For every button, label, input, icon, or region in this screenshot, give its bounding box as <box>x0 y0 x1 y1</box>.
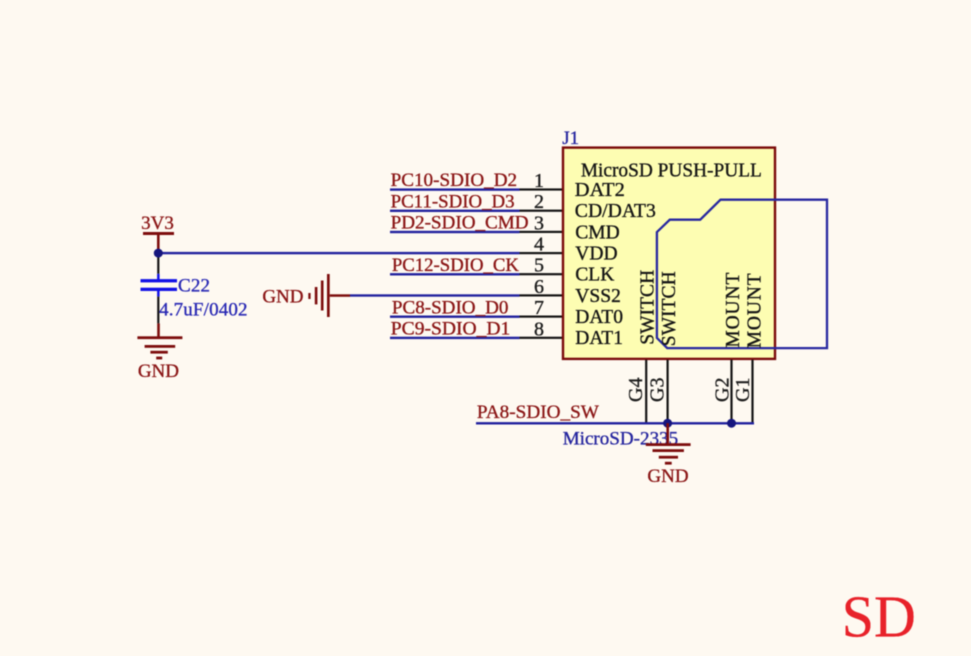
svg-text:3: 3 <box>534 212 544 234</box>
pin 5 stub <box>520 273 564 275</box>
svg-text:VDD: VDD <box>575 243 617 264</box>
svg-text:GND: GND <box>138 361 179 382</box>
connector J1 body <box>563 148 775 359</box>
svg-text:CMD: CMD <box>575 222 619 243</box>
svg-text:G1: G1 <box>732 378 754 402</box>
svg-text:CLK: CLK <box>575 265 614 286</box>
svg-text:PC8-SDIO_D0: PC8-SDIO_D0 <box>392 297 509 318</box>
svg-text:GND: GND <box>647 466 688 487</box>
svg-text:PD2-SDIO_CMD: PD2-SDIO_CMD <box>391 213 529 234</box>
svg-text:3V3: 3V3 <box>141 213 174 234</box>
pin G4 stub <box>645 360 647 423</box>
pin 6 stub <box>520 294 564 296</box>
wire net PD2-SDIO_CMD (row 3) <box>390 231 520 233</box>
power port GND (bar style, middle) <box>262 274 350 317</box>
pin 3 stub <box>520 231 564 233</box>
svg-text:PA8-SDIO_SW: PA8-SDIO_SW <box>477 402 599 423</box>
svg-text:VSS2: VSS2 <box>575 286 621 307</box>
pin 2 stub <box>520 210 564 212</box>
svg-text:J1: J1 <box>562 128 579 149</box>
ground GND (bottom) <box>646 423 691 487</box>
svg-text:MOUNT: MOUNT <box>745 273 766 348</box>
svg-text:7: 7 <box>534 297 544 319</box>
svg-text:C22: C22 <box>178 275 210 296</box>
junction node at G2 <box>727 419 736 428</box>
wire VSS2 net (row 6) <box>350 294 520 296</box>
svg-text:MOUNT: MOUNT <box>723 273 744 348</box>
wire net PC9-SDIO_D1 (row 8) <box>390 337 520 339</box>
pin 8 stub <box>520 337 564 339</box>
svg-text:PC11-SDIO_D3: PC11-SDIO_D3 <box>391 191 515 212</box>
svg-text:2: 2 <box>534 191 544 213</box>
svg-text:6: 6 <box>534 276 544 298</box>
svg-text:1: 1 <box>534 170 544 192</box>
svg-text:DAT2: DAT2 <box>575 180 625 201</box>
capacitor C22 <box>141 253 178 338</box>
svg-text:5: 5 <box>534 255 544 277</box>
junction node at G3 <box>663 419 672 428</box>
microSD card outline <box>657 200 827 348</box>
svg-text:G2: G2 <box>712 378 734 402</box>
wire net PC12-SDIO_CK (row 5) <box>390 273 520 275</box>
svg-text:8: 8 <box>534 318 544 340</box>
pin 4 stub <box>520 252 564 254</box>
wire net PC10-SDIO_D2 (row 1) <box>390 188 520 190</box>
ground GND (below C22) <box>137 336 182 382</box>
svg-text:G4: G4 <box>625 378 647 402</box>
svg-text:4: 4 <box>534 234 544 256</box>
pin G1 stub <box>751 360 753 423</box>
junction node at 3V3/C22/VDD <box>154 249 163 258</box>
svg-text:DAT1: DAT1 <box>575 328 623 349</box>
svg-text:GND: GND <box>262 286 303 307</box>
svg-text:MicroSD-2335: MicroSD-2335 <box>563 428 679 449</box>
svg-text:SWITCH: SWITCH <box>659 271 680 346</box>
svg-text:PC10-SDIO_D2: PC10-SDIO_D2 <box>391 170 517 191</box>
svg-text:PC12-SDIO_CK: PC12-SDIO_CK <box>392 255 519 276</box>
svg-text:CD/DAT3: CD/DAT3 <box>575 201 656 222</box>
pin G2 stub <box>730 360 732 423</box>
power port 3V3 <box>141 213 174 253</box>
wire net PC8-SDIO_D0 (row 7) <box>390 316 520 318</box>
wire VDD net (row 4) <box>158 252 519 254</box>
wire net PA8-SDIO_SW (bottom) <box>476 422 754 424</box>
pin 7 stub <box>520 316 564 318</box>
svg-text:SWITCH: SWITCH <box>637 270 658 345</box>
svg-text:PC9-SDIO_D1: PC9-SDIO_D1 <box>391 319 511 340</box>
svg-text:G3: G3 <box>646 378 668 402</box>
svg-text:4.7uF/0402: 4.7uF/0402 <box>159 300 247 321</box>
pin G3 stub <box>667 360 669 423</box>
svg-text:DAT0: DAT0 <box>575 307 623 328</box>
wire net PC11-SDIO_D3 (row 2) <box>390 210 520 212</box>
pin 1 stub <box>520 188 564 190</box>
svg-text:MicroSD PUSH-PULL: MicroSD PUSH-PULL <box>581 159 762 181</box>
svg-text:SD: SD <box>842 584 916 650</box>
